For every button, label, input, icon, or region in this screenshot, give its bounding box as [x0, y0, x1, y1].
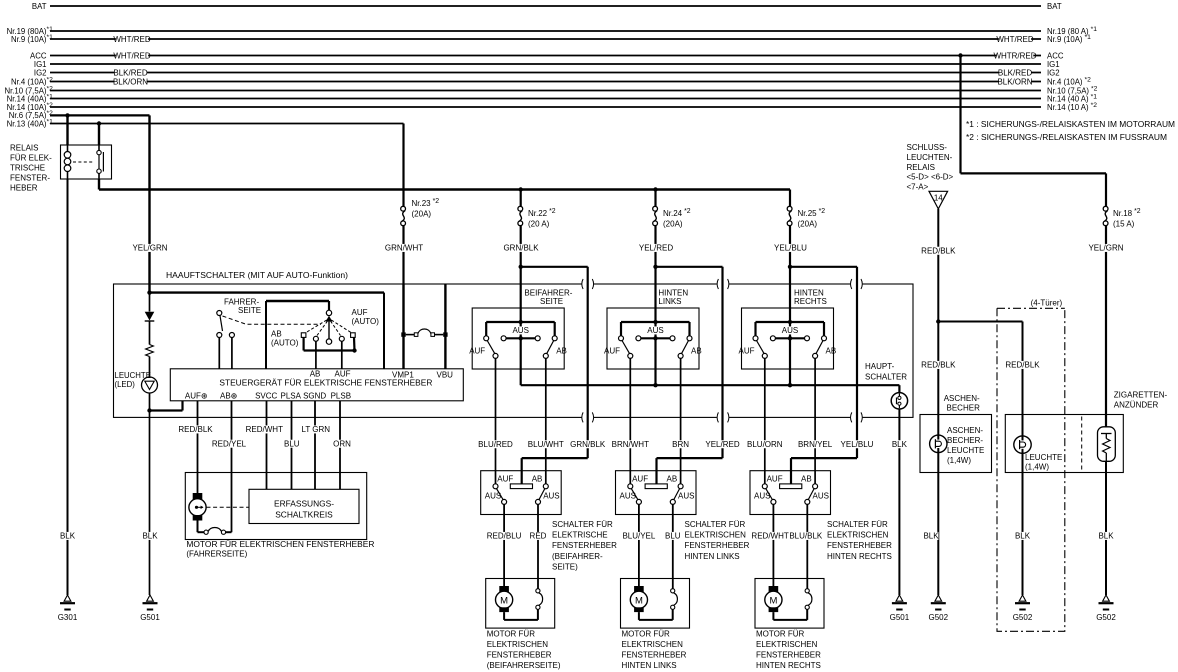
svg-text:FENSTERHEBER: FENSTERHEBER [552, 541, 617, 550]
svg-text:PLSB: PLSB [331, 391, 351, 400]
wire feed into rear-left switch [654, 284, 656, 322]
svg-text:ELEKTRISCHEN: ELEKTRISCHEN [756, 640, 818, 649]
wire RED/BLK AUF pin to driver motor [197, 401, 199, 493]
wire rear-left motor return [638, 612, 640, 620]
wire BLK main lock switch to ground G501 [898, 409, 900, 595]
svg-text:(4-Türer): (4-Türer) [1031, 299, 1063, 308]
svg-text:IG2: IG2 [34, 68, 47, 77]
svg-text:BLK/ORN: BLK/ORN [997, 77, 1032, 86]
svg-text:(BEIFAHRERSEITE): (BEIFAHRERSEITE) [487, 661, 561, 670]
ground G301 [64, 595, 71, 601]
svg-text:G301: G301 [58, 613, 78, 622]
svg-text:AB: AB [801, 474, 812, 483]
svg-text:HINTEN RECHTS: HINTEN RECHTS [827, 552, 892, 561]
svg-text:YEL/GRN: YEL/GRN [132, 244, 167, 253]
svg-text:MOTOR FÜR: MOTOR FÜR [487, 630, 536, 639]
label AUS passenger [513, 326, 528, 334]
svg-text:AUS: AUS [754, 491, 770, 500]
svg-text:(1,4W): (1,4W) [947, 456, 971, 465]
labels window switch passenger [485, 474, 560, 500]
wire RED to motor connector [537, 504, 539, 588]
wire VBU from top edge [444, 284, 446, 369]
rear-left label [658, 288, 688, 306]
svg-text:*1: *1 [47, 93, 54, 100]
svg-text:BLK/ORN: BLK/ORN [113, 77, 148, 86]
auto rail [304, 349, 355, 351]
svg-text:M: M [769, 595, 777, 606]
wire GRN/BLK fuse Nr.22 to passenger switch [520, 226, 522, 284]
label LEUCHTE (LED) [115, 371, 151, 389]
svg-text:AUS: AUS [512, 326, 528, 335]
svg-text:AUS: AUS [678, 491, 694, 500]
wire BLU to motor connector [672, 504, 674, 588]
svg-text:AUS: AUS [620, 491, 636, 500]
svg-text:STEUERGERÄT FÜR ELEKTRISCHE FE: STEUERGERÄT FÜR ELEKTRISCHE FENSTERHEBER [219, 378, 432, 388]
svg-text:*2: *2 [47, 76, 54, 83]
svg-text:AB: AB [667, 474, 678, 483]
svg-text:BLK: BLK [892, 440, 908, 449]
rear-left window switch contacts [628, 484, 633, 489]
wire feed into passenger switch [520, 284, 522, 322]
circuit breaker between VMP1 and VBU [401, 332, 405, 336]
svg-text:AUF: AUF [604, 347, 620, 356]
rotary contact AUF [339, 336, 344, 341]
svg-text:SCHALTER FÜR: SCHALTER FÜR [827, 520, 888, 529]
svg-text:BLK: BLK [1015, 532, 1031, 541]
svg-text:RELAIS: RELAIS [10, 144, 38, 153]
svg-text:AUF: AUF [739, 347, 755, 356]
svg-text:RED/WHT: RED/WHT [246, 425, 283, 434]
wire YEL/BLU pass-through [790, 266, 857, 268]
svg-text:YEL/BLU: YEL/BLU [841, 440, 874, 449]
svg-text:(20A): (20A) [663, 220, 683, 229]
svg-text:ANZÜNDER: ANZÜNDER [1114, 401, 1159, 410]
rear-right label [794, 288, 827, 306]
rotary dashed fingers [306, 320, 327, 333]
svg-text:G502: G502 [1096, 613, 1116, 622]
connector marks top edge GRN/BLK [582, 283, 594, 286]
rear-left switch box [607, 308, 699, 369]
wire ORN PLSB pin to sensing circuit [339, 401, 341, 490]
svg-text:HAUPT-: HAUPT- [865, 362, 895, 371]
wire RED/BLK connector 14 down [937, 209, 939, 436]
svg-text:*2: *2 [47, 102, 54, 109]
svg-text:BLK/RED: BLK/RED [113, 68, 147, 77]
svg-text:MOTOR FÜR: MOTOR FÜR [622, 630, 671, 639]
svg-text:*1: *1 [47, 118, 54, 125]
interior lamp box [1005, 415, 1123, 473]
wire RED/WHT SVCC pin to sensing circuit [266, 401, 268, 490]
label RED/BLK below branch [922, 361, 954, 369]
rear-left window switch bridge [645, 484, 667, 489]
svg-text:WHT/RED: WHT/RED [996, 35, 1034, 44]
svg-text:RED/BLK: RED/BLK [1005, 361, 1040, 370]
connector marks top edge YEL/RED [717, 283, 729, 286]
window switch label rear-left [685, 520, 750, 561]
wire BLU/BLK to motor connector [806, 504, 808, 588]
label AUF (AUTO) [352, 308, 380, 326]
wire down to fuse Nr.18 [1105, 173, 1107, 206]
passenger switch blades [487, 341, 495, 354]
svg-text:BAT: BAT [32, 2, 47, 11]
label RED/WHT [754, 532, 786, 540]
wire GRN/WHT fuse Nr.23 to main switch [402, 226, 404, 284]
wire BLK ashtray lamp to ground G502 [937, 452, 939, 595]
svg-text:*1 : SICHERUNGS-/RELAISKASTEN: *1 : SICHERUNGS-/RELAISKASTEN IM MOTORRA… [966, 120, 1175, 129]
inline connector rear-left motor [671, 589, 675, 593]
wire AB contact to control unit [315, 341, 317, 369]
svg-text:M: M [635, 595, 643, 606]
svg-text:LINKS: LINKS [658, 297, 681, 306]
label AUS rear-right [783, 326, 798, 334]
label BLK ashtray [924, 532, 939, 540]
svg-text:ELEKTRISCHEN: ELEKTRISCHEN [487, 640, 549, 649]
wire rear-left AUF output down [629, 358, 631, 483]
svg-text:LEUCHTE: LEUCHTE [115, 371, 151, 380]
wire RED/BLU to motor [503, 504, 505, 586]
connector marks top edge YEL/BLU [850, 283, 862, 286]
svg-text:YEL/BLU: YEL/BLU [774, 244, 807, 253]
svg-text:RED: RED [530, 532, 547, 541]
svg-text:RED/BLK: RED/BLK [921, 246, 956, 255]
window switch label passenger [552, 520, 617, 571]
svg-text:RED/BLK: RED/BLK [178, 425, 213, 434]
svg-text:ASCHEN-: ASCHEN- [947, 426, 983, 435]
label BLU/BLK [790, 532, 822, 540]
rear-left window switch box [616, 471, 697, 515]
wire YEL/RED pass-through [656, 266, 723, 268]
svg-text:BLU/BLK: BLU/BLK [789, 532, 823, 541]
svg-text:FENSTER-: FENSTER- [10, 174, 50, 183]
wire rear-left AB output down [680, 358, 682, 483]
label YEL/BLU [774, 244, 806, 252]
label BLU [284, 440, 299, 448]
svg-text:AUF: AUF [352, 308, 368, 317]
connector marks bottom edge GRN/BLK [582, 416, 594, 419]
svg-text:SCHALTER: SCHALTER [865, 372, 907, 381]
rear-right window switch bridge [780, 484, 802, 489]
label BLU/RED [479, 440, 511, 448]
sensing circuit label [274, 499, 334, 520]
svg-text:FENSTERHEBER: FENSTERHEBER [622, 651, 687, 660]
svg-text:RED/YEL: RED/YEL [212, 439, 247, 448]
svg-text:BRN/YEL: BRN/YEL [798, 440, 833, 449]
rotary contact AUF AUTO [351, 333, 356, 338]
sensing circuit box [249, 489, 359, 523]
fuse Nr.18 (15A) [1103, 206, 1108, 211]
svg-text:<7-A>: <7-A> [907, 182, 929, 191]
ground G501 right [896, 595, 903, 601]
interior lamp labels [1025, 453, 1062, 472]
svg-text:(20 A): (20 A) [528, 220, 550, 229]
svg-text:14: 14 [934, 194, 943, 203]
cigarette lighter element [1098, 427, 1116, 462]
passenger motor box [486, 579, 555, 629]
svg-text:AB: AB [271, 330, 282, 339]
label RED/WHT [248, 425, 280, 433]
svg-text:WHTR/RED: WHTR/RED [993, 51, 1036, 60]
svg-text:LEUCHTEN-: LEUCHTEN- [907, 153, 953, 162]
svg-text:RED/BLU: RED/BLU [487, 532, 522, 541]
svg-text:HINTEN: HINTEN [794, 288, 824, 297]
ashtray bulb [930, 435, 947, 452]
wire GRN/BLK pass-through [521, 266, 588, 268]
label RED [531, 532, 546, 540]
wire rail down to fuse Nr.25 [789, 190, 791, 207]
wire BLK master switch to ground G501 [149, 411, 151, 596]
wire rail down to fuse Nr.24 [654, 190, 656, 207]
svg-text:HINTEN LINKS: HINTEN LINKS [685, 552, 740, 561]
rear-left motor box [621, 579, 690, 629]
svg-text:SCHALTER FÜR: SCHALTER FÜR [685, 520, 746, 529]
svg-text:FÜR ELEK-: FÜR ELEK- [10, 154, 52, 163]
label ASCHENBECHER [944, 394, 980, 412]
rear-right window switch box [750, 471, 831, 515]
wire LED to control unit ground pin [149, 393, 151, 411]
label LT GRN [302, 425, 330, 433]
svg-text:YEL/RED: YEL/RED [705, 440, 739, 449]
svg-text:WHT/RED: WHT/RED [113, 51, 151, 60]
label RED/YEL [213, 440, 245, 448]
svg-text:GRN/WHT: GRN/WHT [385, 244, 423, 253]
svg-text:FENSTERHEBER: FENSTERHEBER [756, 651, 821, 660]
label YEL/GRN right [1090, 244, 1122, 252]
svg-text:ORN: ORN [333, 439, 351, 448]
inline connector driver motor [204, 530, 208, 534]
svg-text:BLU/YEL: BLU/YEL [622, 532, 655, 541]
svg-text:*2: *2 [47, 110, 54, 117]
indicator lamp LED [142, 377, 158, 393]
wire RED/WHT to motor [772, 504, 774, 586]
label BLK interior lamp [1015, 532, 1030, 540]
svg-text:YEL/RED: YEL/RED [639, 244, 673, 253]
control unit pin labels bottom [185, 391, 351, 400]
wire GRN/WHT into VMP1 [402, 284, 404, 369]
svg-text:SEITE: SEITE [540, 297, 563, 306]
main feed bus inside master switch [150, 291, 385, 293]
wire ACC to rear lighting circuit [959, 56, 961, 174]
label BLK lighter [1099, 532, 1114, 540]
svg-text:SEITE): SEITE) [552, 562, 578, 571]
svg-text:(LED): (LED) [115, 380, 136, 389]
junction dot YEL/GRN feed [147, 290, 151, 294]
svg-text:BLU/RED: BLU/RED [478, 440, 513, 449]
svg-text:BLK: BLK [142, 532, 158, 541]
passenger window switch contacts [493, 484, 498, 489]
label BLU/ORN [749, 440, 781, 448]
passenger switch AUS bar [506, 337, 535, 339]
dashed link motor to sensing circuit [207, 506, 250, 508]
svg-text:BLK: BLK [1098, 532, 1114, 541]
svg-text:(15 A): (15 A) [1113, 220, 1135, 229]
label BRN/YEL [799, 440, 831, 448]
svg-text:FENSTERHEBER: FENSTERHEBER [685, 541, 750, 550]
svg-text:HINTEN RECHTS: HINTEN RECHTS [756, 661, 821, 670]
wire Nr.6 bus to relay coil [66, 115, 68, 145]
svg-text:GRN/BLK: GRN/BLK [503, 244, 539, 253]
svg-text:BECHER-: BECHER- [947, 436, 983, 445]
svg-text:*2: *2 [47, 85, 54, 92]
fuse Nr.22 (20A) [518, 206, 523, 211]
svg-text:SGND: SGND [303, 391, 326, 400]
svg-text:AUF: AUF [767, 474, 783, 483]
wire Nr.13 bus to relay contact [98, 124, 100, 146]
rear-left switch AUS bar [641, 337, 670, 339]
rear-right motor [769, 586, 779, 592]
svg-text:SCHALTER FÜR: SCHALTER FÜR [552, 520, 613, 529]
wire BLK interior lamp to ground G502 [1022, 453, 1024, 595]
passenger window switch bridge [510, 484, 532, 489]
wire passenger motor return [503, 612, 505, 620]
relay label [10, 144, 52, 193]
svg-text:FAHRER-: FAHRER- [224, 298, 259, 307]
wire feed rear-right switch to common rail [789, 338, 791, 385]
junction dot rail rear-right [788, 383, 792, 387]
svg-text:M: M [500, 595, 508, 606]
rear-left motor [634, 586, 644, 592]
passenger switch top bar [486, 321, 555, 323]
svg-text:AUF: AUF [632, 474, 648, 483]
svg-text:LT GRN: LT GRN [301, 425, 330, 434]
rear-right switch top bar [756, 321, 825, 323]
svg-text:LEUCHTE: LEUCHTE [947, 446, 984, 455]
resistor [146, 345, 154, 357]
wires driver switch to control unit [218, 338, 220, 369]
wire feed to indicator diode [149, 293, 151, 312]
rotary switch pivot [328, 301, 330, 310]
svg-text:MOTOR FÜR: MOTOR FÜR [756, 630, 805, 639]
wire BLU PLSA pin to sensing circuit [291, 401, 293, 490]
wire relay contact to feed rail [98, 179, 100, 190]
power bus lines with fuse labels [4, 2, 1097, 129]
svg-text:G501: G501 [140, 613, 160, 622]
rear-left switch blades [622, 341, 630, 354]
svg-text:AUS: AUS [543, 491, 559, 500]
relay for power windows [61, 145, 112, 179]
inline connector rear-right motor [805, 589, 809, 593]
rear-right switch box [742, 308, 834, 369]
svg-text:(AUTO): (AUTO) [271, 339, 299, 348]
ground G502 lighter [1103, 595, 1110, 601]
wire rail down to fuse Nr.22 [520, 190, 522, 207]
svg-text:BLK: BLK [60, 532, 76, 541]
label ORN [335, 440, 350, 448]
wire YEL/BLU fuse Nr.25 to rear-right switch [789, 226, 791, 284]
wire relay coil to ground G301 [67, 179, 69, 595]
svg-text:ELEKTRISCHEN: ELEKTRISCHEN [827, 531, 889, 540]
svg-text:SEITE: SEITE [238, 306, 261, 315]
svg-text:PLSA: PLSA [281, 391, 302, 400]
svg-text:RELAIS: RELAIS [907, 163, 935, 172]
switch common rail [521, 384, 900, 386]
svg-text:VBU: VBU [437, 371, 454, 380]
svg-text:AB: AB [532, 474, 543, 483]
rear-right window switch contacts [762, 484, 767, 489]
junction dot rail fuse Nr.24 [653, 187, 657, 191]
label AUS rear-left [648, 326, 663, 334]
rear-right motor box [755, 579, 824, 629]
wire AB-AUTO contact to auto rail [303, 337, 305, 350]
label YEL/RED [706, 440, 738, 448]
svg-text:SVCC: SVCC [255, 391, 277, 400]
passenger motor label [487, 630, 561, 671]
fuse Nr.24 (20A) [653, 206, 658, 211]
svg-text:ASCHEN-: ASCHEN- [944, 394, 980, 403]
rotary switch feed bar to SVCC [266, 300, 329, 302]
svg-text:Nr.4 (10A): Nr.4 (10A) [11, 77, 47, 86]
diode [145, 312, 155, 321]
label BLK lock switch [892, 440, 907, 448]
svg-text:(FAHRERSEITE): (FAHRERSEITE) [186, 550, 247, 559]
wire feed passenger switch to common rail [520, 338, 522, 385]
ground G502 ashtray [935, 595, 942, 601]
driver window motor box [185, 473, 366, 540]
svg-text:AUF: AUF [469, 347, 485, 356]
label YEL/BLU [841, 440, 873, 448]
rear-right switch blades [757, 341, 765, 354]
svg-text:SCHALTKREIS: SCHALTKREIS [275, 510, 333, 520]
svg-text:HEBER: HEBER [10, 184, 38, 193]
label BLU/WHT [530, 440, 562, 448]
rear-left motor label [622, 630, 687, 671]
wire YEL/RED fuse Nr.24 to rear-left switch [654, 226, 656, 284]
wire RED/BLK branch to interior lamp [938, 321, 1022, 323]
svg-text:BLU: BLU [284, 439, 300, 448]
svg-text:TRISCHE: TRISCHE [10, 164, 45, 173]
label GRN/WHT [388, 244, 420, 252]
wire resistor to LED [149, 357, 151, 378]
label RED/BLK lamp feed [1006, 361, 1038, 369]
svg-text:AUF⊕: AUF⊕ [185, 391, 208, 400]
junction dot rail fuse Nr.22 [519, 187, 523, 191]
svg-text:*2 : SICHERUNGS-/RELAISKASTEN: *2 : SICHERUNGS-/RELAISKASTEN IM FUSSRAU… [966, 133, 1167, 142]
wire AUF-AUTO contact to auto rail [353, 337, 356, 350]
svg-text:AB: AB [826, 347, 837, 356]
svg-text:<5-D> <6-D>: <5-D> <6-D> [907, 173, 954, 182]
driver switch contacts [217, 333, 222, 338]
wire LT GRN SGND pin to sensing circuit [314, 401, 316, 490]
svg-text:AB⊕: AB⊕ [220, 391, 237, 400]
wire BLK cigarette lighter to ground G502 [1105, 461, 1107, 595]
label ZIGARETTEN-ANZUENDER [1114, 391, 1168, 410]
svg-text:(BEIFAHRER-: (BEIFAHRER- [552, 552, 603, 561]
wire AUF contact to control unit [341, 341, 343, 369]
svg-text:G502: G502 [1013, 613, 1033, 622]
rotary contact AB AUTO [301, 333, 306, 338]
svg-text:(20A): (20A) [798, 220, 818, 229]
label BLK coil ground wire [60, 532, 75, 540]
svg-text:AUS: AUS [485, 491, 501, 500]
rear-right motor label [756, 630, 821, 671]
svg-text:ELEKTRISCHEN: ELEKTRISCHEN [685, 531, 747, 540]
svg-text:SCHLUSS-: SCHLUSS- [907, 143, 948, 152]
labels window switch rear-left [620, 474, 695, 500]
label RED/BLK [179, 425, 211, 433]
driver motor [193, 493, 203, 500]
mechanical link dashed driver to rotary [223, 316, 322, 324]
main lock switch [891, 393, 907, 409]
wire Nr.6 bus down YEL/GRN to main switch [148, 115, 150, 292]
wire rear-right AB output down [814, 358, 816, 483]
svg-text:(AUTO): (AUTO) [352, 317, 380, 326]
svg-text:RECHTS: RECHTS [794, 297, 827, 306]
svg-text:BLU/WHT: BLU/WHT [528, 440, 564, 449]
wire Nr.13 bus down to fuse Nr.23 [402, 124, 404, 207]
label YEL/RED [640, 244, 672, 252]
svg-text:ZIGARETTEN-: ZIGARETTEN- [1114, 391, 1168, 400]
rear-left switch top bar [621, 321, 690, 323]
svg-text:Nr.9 (10A): Nr.9 (10A) [11, 35, 47, 44]
